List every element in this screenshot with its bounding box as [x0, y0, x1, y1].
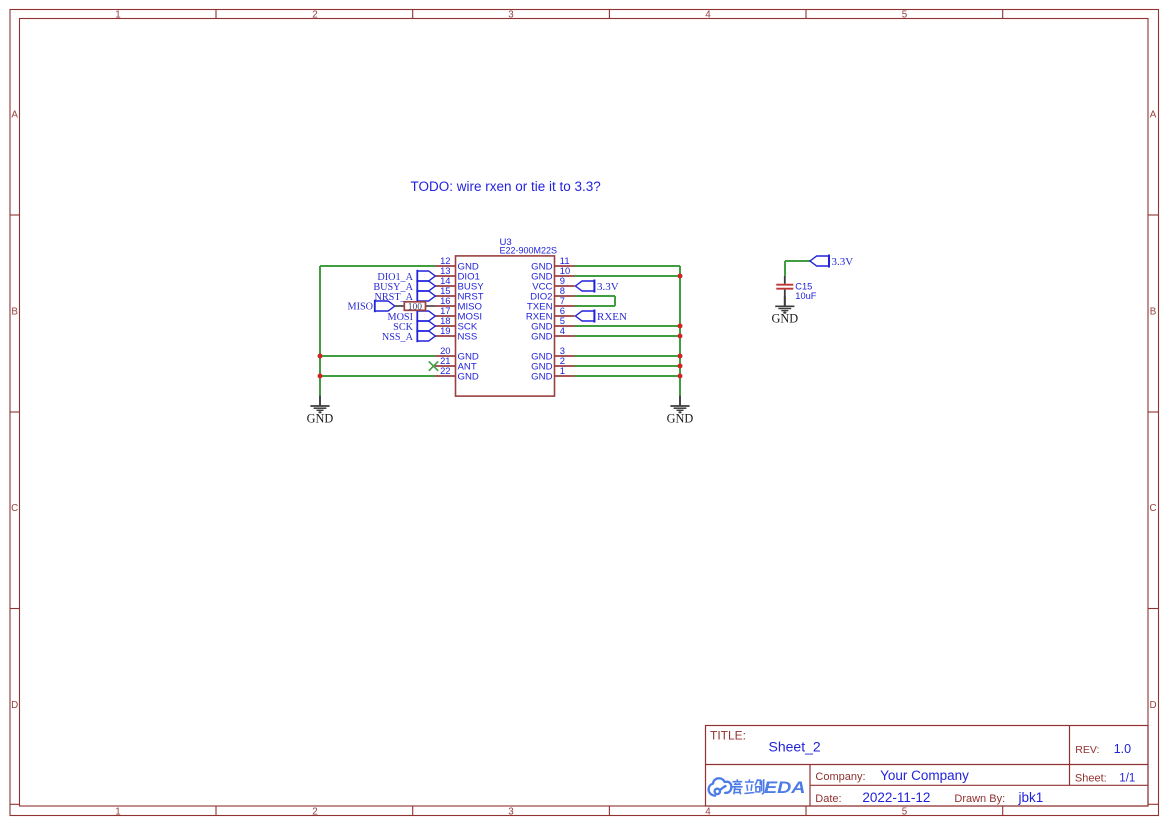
ruler row ticks right [1148, 215, 1159, 609]
pin numbers left side [440, 255, 450, 376]
svg-text:GND: GND [667, 411, 694, 425]
junction at (680,336) [678, 334, 683, 339]
wire pin2 to right rail [575, 365, 681, 367]
svg-text:REV:: REV: [1075, 744, 1099, 756]
pin names left side [458, 262, 485, 383]
pin 5 line (right) [555, 325, 575, 327]
svg-text:1: 1 [115, 807, 120, 818]
ruler column ticks bottom [216, 806, 1003, 816]
svg-text:19: 19 [440, 325, 450, 336]
svg-text:B: B [1150, 306, 1157, 317]
logo text jialichuang (stylized) [732, 779, 764, 794]
net flag RXEN at pin 6 [575, 310, 627, 323]
svg-text:3: 3 [508, 9, 514, 20]
pin 17 line (left) [435, 315, 456, 317]
svg-text:GND: GND [307, 411, 334, 425]
svg-text:GND: GND [771, 312, 798, 326]
wire pin5 to right rail [575, 325, 681, 327]
net flag MISO [348, 300, 395, 313]
svg-text:4: 4 [705, 9, 711, 20]
no-connect X on pin 21 ANT [429, 361, 438, 370]
svg-text:GND: GND [458, 372, 479, 383]
wire 3.3V to C15 horizontal [785, 260, 810, 262]
pin 12 line (left) [435, 265, 456, 267]
svg-text:Company:: Company: [815, 771, 865, 783]
pin 15 line (left) [435, 295, 456, 297]
svg-text:1.0: 1.0 [1114, 742, 1131, 756]
pin 18 line (left) [435, 325, 456, 327]
resistor lead right [426, 305, 436, 307]
pin 19 line (left) [435, 335, 456, 337]
pin names right side [526, 262, 553, 383]
junction at (680,356) [678, 354, 683, 359]
pin 1 line (right) [555, 375, 575, 377]
junction at (680,276) [678, 274, 683, 279]
svg-text:B: B [11, 306, 18, 317]
pin 20 line (left) [435, 355, 456, 357]
svg-text:3.3V: 3.3V [597, 281, 619, 293]
wire left GND rail vertical [319, 266, 321, 396]
wire pin8 DIO2 horizontal [575, 295, 616, 297]
svg-text:D: D [1149, 700, 1156, 711]
svg-text:MISO: MISO [348, 302, 373, 313]
pin 14 line (left) [435, 285, 456, 287]
ruler row D end tick left [10, 803, 20, 805]
svg-text:1: 1 [560, 365, 565, 376]
svg-text:D: D [11, 700, 18, 711]
pin 16 line (left) [435, 305, 456, 307]
ground symbol GND left rail [307, 396, 334, 426]
power flag 3.3V at pin 9 [575, 280, 618, 293]
svg-text:10uF: 10uF [795, 291, 817, 301]
capacitor C15 [776, 276, 793, 306]
svg-text:1/1: 1/1 [1119, 772, 1135, 784]
wire pin3 to right rail [575, 355, 681, 357]
ruler column labels top 1-5 [115, 9, 908, 20]
pin 13 line (left) [435, 275, 456, 277]
svg-text:A: A [1150, 110, 1157, 121]
ground symbol GND at C15 [771, 296, 798, 326]
net flag NRST_A [375, 290, 436, 303]
wire 3.3V to C15 vertical [784, 261, 786, 276]
resistor lead left [395, 305, 405, 307]
svg-text:Drawn By:: Drawn By: [954, 793, 1005, 805]
pin 10 line (right) [555, 275, 575, 277]
wire pin22 to left rail [320, 375, 435, 377]
pin 9 line (right) [555, 285, 575, 287]
svg-text:RXEN: RXEN [597, 311, 627, 323]
svg-text:4: 4 [560, 325, 565, 336]
ruler row D end tick right [1148, 803, 1159, 805]
svg-text:GND: GND [531, 332, 552, 343]
wire pin1 to right rail [575, 375, 681, 377]
svg-text:NSS: NSS [458, 332, 478, 343]
pin 21 line (left) [435, 365, 456, 367]
svg-text:jbk1: jbk1 [1018, 790, 1044, 805]
ground symbol GND right rail [667, 396, 694, 426]
svg-text:3: 3 [508, 807, 514, 818]
pin 2 line (right) [555, 365, 575, 367]
svg-text:Sheet:: Sheet: [1075, 772, 1107, 784]
pin 8 line (right) [555, 295, 575, 297]
svg-text:NSS_A: NSS_A [382, 332, 414, 343]
svg-text:4: 4 [705, 807, 711, 818]
svg-text:C: C [11, 503, 18, 514]
logo JLC EDA cloud icon [709, 778, 732, 795]
svg-text:100: 100 [408, 303, 423, 313]
net flag BUSY_A [373, 280, 435, 293]
pin numbers right side [560, 255, 570, 376]
pin 4 line (right) [555, 335, 575, 337]
wire pin11 to right GND rail [575, 265, 681, 267]
junction at (680,376) [678, 374, 683, 379]
junction at (680,366) [678, 364, 683, 369]
op IC U3 body E22-900M22S [456, 256, 555, 396]
ruler row ticks left [10, 215, 20, 609]
power flag 3.3V at C15 [810, 255, 853, 268]
title block outline [706, 726, 1149, 807]
ruler row labels left A-D [11, 110, 18, 711]
wire pin4 to right rail [575, 335, 681, 337]
svg-text:Sheet_2: Sheet_2 [769, 738, 821, 754]
pin 6 line (right) [555, 315, 575, 317]
wire pin7 TXEN horizontal [575, 305, 616, 307]
wire pin20 to left rail [320, 355, 435, 357]
svg-text:TITLE:: TITLE: [710, 728, 746, 742]
pin 3 line (right) [555, 355, 575, 357]
wire DIO2-TXEN vertical [614, 296, 616, 306]
resistor body 100 [404, 302, 425, 311]
net flag SCK [393, 320, 435, 333]
svg-text:2022-11-12: 2022-11-12 [862, 790, 930, 805]
pin 11 line (right) [555, 265, 575, 267]
net flag DIO1_A [377, 270, 435, 283]
junction at (680,326) [678, 324, 683, 329]
pin 22 line (left) [435, 375, 456, 377]
svg-text:2: 2 [312, 807, 317, 818]
svg-text:C: C [1149, 503, 1156, 514]
svg-text:EDA: EDA [764, 778, 806, 797]
net flag NSS_A [382, 330, 435, 343]
junction at (320,376) [318, 374, 323, 379]
svg-text:Date:: Date: [815, 793, 841, 805]
ruler column ticks top [216, 10, 1003, 19]
svg-text:E22-900M22S: E22-900M22S [500, 245, 558, 255]
wire right GND rail vertical [679, 266, 681, 396]
net flag MOSI [388, 310, 436, 323]
svg-text:TODO: wire rxen or tie it to 3: TODO: wire rxen or tie it to 3.3? [411, 179, 601, 194]
svg-text:22: 22 [440, 365, 450, 376]
svg-text:3.3V: 3.3V [832, 256, 854, 268]
ruler column labels bottom 1-5 [115, 807, 908, 818]
svg-text:5: 5 [902, 807, 908, 818]
wire pin12 to left GND rail [320, 265, 435, 267]
svg-text:A: A [11, 110, 18, 121]
ruler row labels right A-D [1149, 110, 1156, 711]
svg-text:1: 1 [115, 9, 120, 20]
svg-text:5: 5 [902, 9, 908, 20]
svg-text:2: 2 [312, 9, 317, 20]
wire pin10 to right rail [575, 275, 681, 277]
pin 7 line (right) [555, 305, 575, 307]
svg-text:GND: GND [531, 372, 552, 383]
svg-text:Your Company: Your Company [880, 768, 969, 783]
junction at (320,356) [318, 354, 323, 359]
